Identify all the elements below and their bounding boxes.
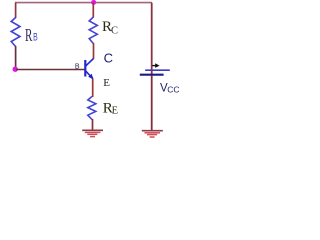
transistor Q1 emitter stroke with arrow bbox=[85, 71, 93, 79]
svg-text:CC: CC bbox=[167, 84, 179, 94]
svg-text:C: C bbox=[111, 25, 118, 36]
transistor Q1 collector stroke bbox=[85, 59, 93, 67]
transistor Q1 base bar bbox=[84, 60, 86, 77]
wire RE bottom vertical to ground bbox=[92, 119, 94, 130]
current arrow at battery + bbox=[153, 65, 157, 67]
ground right bbox=[142, 130, 163, 132]
resistor RC bbox=[89, 17, 97, 44]
wire between battery plates bbox=[151, 70, 153, 74]
node VCC top junction dot bbox=[91, 0, 96, 5]
svg-text:E: E bbox=[103, 77, 110, 89]
wire top horizontal (VCC rail) bbox=[15, 2, 152, 4]
ground middle bbox=[82, 129, 103, 131]
svg-text:B: B bbox=[75, 61, 80, 70]
wire right vertical lower (battery to ground) bbox=[151, 76, 153, 131]
wire emitter vertical (transistor to RE) bbox=[92, 79, 94, 97]
resistor RE bbox=[88, 97, 96, 120]
battery VCC bottom plate bbox=[140, 74, 164, 76]
wire right vertical upper (top rail to battery) bbox=[151, 3, 153, 70]
wire RC top vertical bbox=[92, 3, 94, 18]
wire base horizontal bbox=[16, 69, 85, 71]
wire collector vertical (RC to transistor) bbox=[93, 43, 95, 59]
svg-text:C: C bbox=[104, 50, 113, 65]
resistor RB bbox=[11, 18, 20, 47]
battery VCC top plate bbox=[145, 69, 170, 71]
wire left vertical lower (RB to base node) bbox=[15, 46, 17, 69]
svg-text:E: E bbox=[112, 106, 118, 117]
node base junction dot bbox=[13, 67, 18, 72]
svg-text:R: R bbox=[25, 25, 33, 45]
wire left vertical upper (top rail to RB) bbox=[15, 3, 17, 18]
svg-text:B: B bbox=[33, 32, 38, 44]
